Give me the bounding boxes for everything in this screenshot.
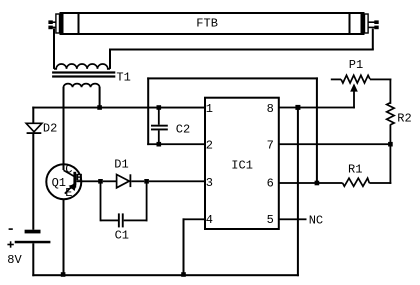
svg-text:5: 5 [267, 213, 274, 227]
svg-text:P1: P1 [349, 58, 363, 72]
svg-text:8: 8 [267, 102, 274, 116]
svg-text:NC: NC [309, 214, 323, 228]
svg-text:Q1: Q1 [52, 176, 66, 190]
svg-text:IC1: IC1 [231, 159, 253, 173]
svg-text:D2: D2 [43, 122, 57, 136]
svg-text:R1: R1 [348, 162, 362, 176]
svg-text:R2: R2 [397, 111, 411, 125]
svg-text:3: 3 [206, 176, 213, 190]
svg-text:C1: C1 [115, 229, 129, 243]
svg-text:T1: T1 [116, 71, 130, 85]
svg-text:D1: D1 [114, 157, 128, 171]
svg-text:6: 6 [267, 176, 274, 190]
svg-text:1: 1 [206, 102, 213, 116]
svg-text:E: E [65, 186, 72, 200]
svg-text:4: 4 [206, 213, 213, 227]
svg-text:C2: C2 [176, 122, 190, 136]
svg-text:8V: 8V [7, 253, 22, 267]
svg-text:7: 7 [267, 138, 274, 152]
svg-text:FTB: FTB [196, 17, 218, 31]
svg-text:2: 2 [206, 138, 213, 152]
